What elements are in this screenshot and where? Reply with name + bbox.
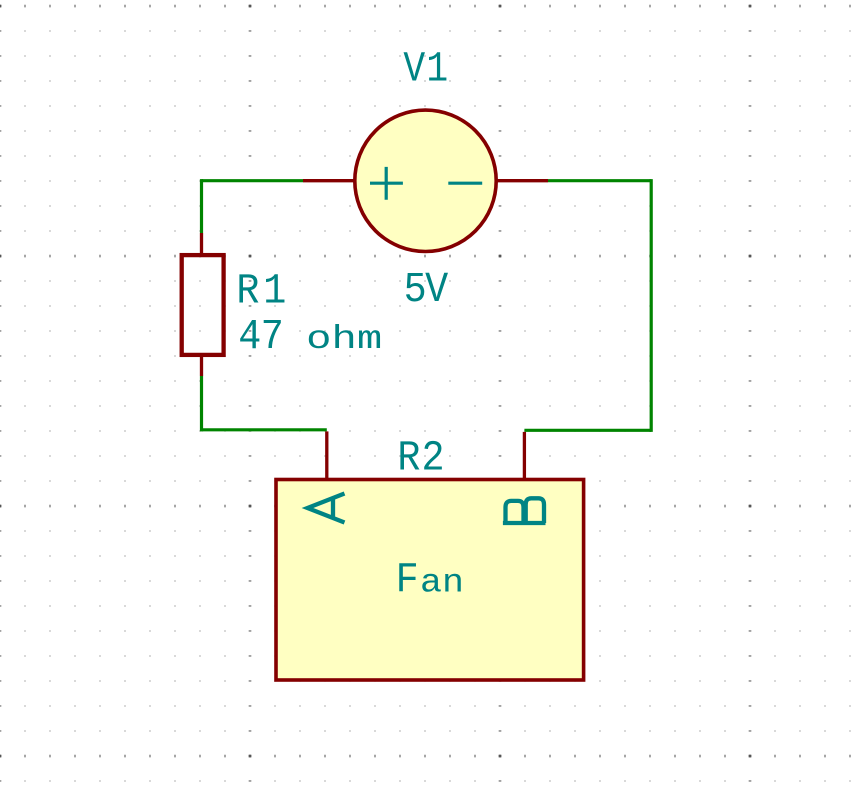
svg-text:R2: R2 (397, 435, 445, 483)
label V1 (403, 45, 449, 93)
wire right vertical (650, 179, 653, 432)
pin B (523, 432, 526, 481)
wire top-right horizontal (548, 179, 651, 182)
wire bottom-left horizontal (202, 428, 327, 431)
svg-text:F: F (396, 557, 419, 605)
voltage source V1 (303, 110, 548, 251)
resistor R1 (182, 233, 224, 376)
pin name A (308, 494, 345, 523)
svg-text:an: an (420, 564, 464, 602)
svg-text:47: 47 (238, 313, 283, 361)
wire bottom-left vertical (200, 376, 203, 431)
label 5V (404, 266, 449, 314)
pin A (325, 431, 328, 481)
component fan R2 (276, 480, 584, 681)
pin name B (503, 498, 546, 523)
label Fan (396, 557, 419, 605)
wire top-left horizontal (202, 179, 304, 182)
svg-text:V1: V1 (403, 45, 449, 93)
svg-text:R1: R1 (236, 268, 290, 316)
wire bottom-right horizontal (524, 429, 651, 432)
label R1 (236, 268, 290, 316)
label 47 ohm (238, 313, 283, 361)
label R2 (397, 435, 445, 483)
svg-text:ohm: ohm (306, 321, 382, 358)
svg-text:5V: 5V (404, 266, 449, 314)
wire left vertical (200, 179, 203, 233)
